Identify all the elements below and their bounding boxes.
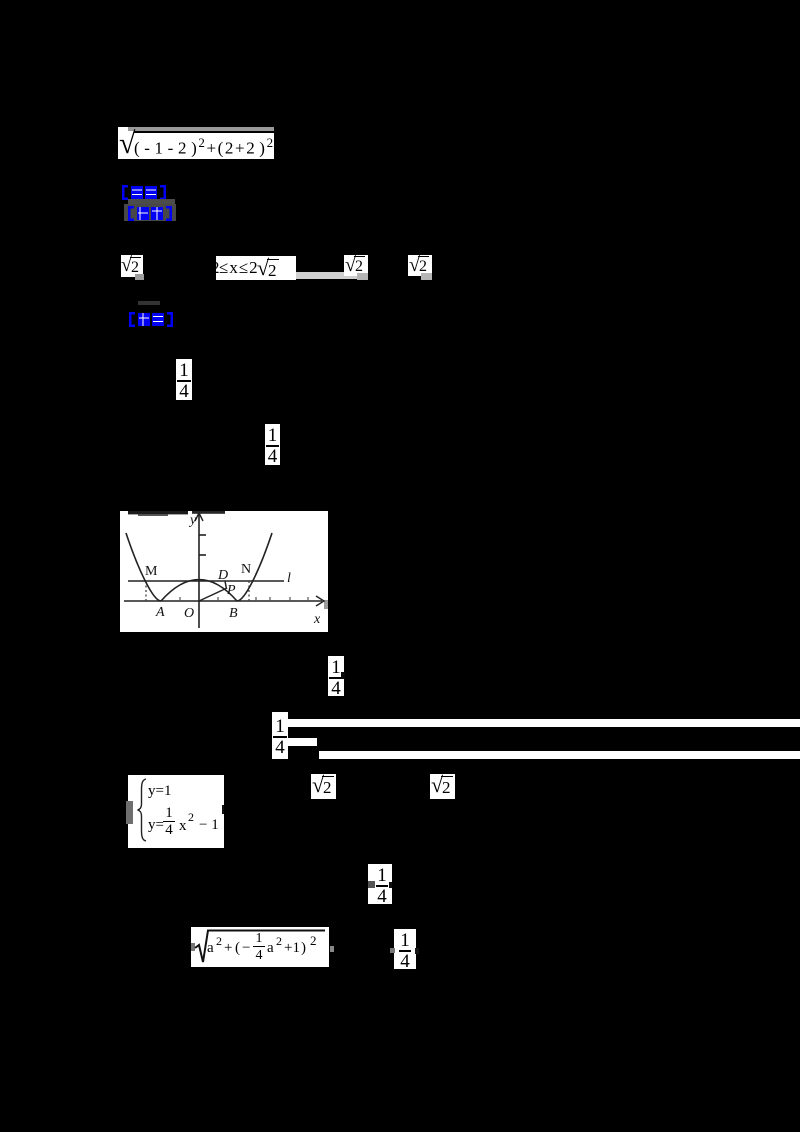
sqrt2 a (121, 255, 143, 277)
svg-text:N: N (241, 562, 251, 577)
fraction F (394, 929, 416, 969)
sqrt2 c (408, 255, 432, 276)
svg-text:y: y (188, 513, 197, 528)
svg-text:O: O (184, 606, 194, 621)
grey shadow under label1 (128, 199, 175, 205)
svg-text:P: P (226, 583, 236, 598)
sqrt2 b (344, 255, 368, 276)
segment O-P (199, 588, 227, 601)
x axis (124, 513, 324, 628)
svg-text:M: M (145, 564, 158, 579)
faint smudge above label3 (138, 301, 160, 305)
y axis (198, 514, 200, 628)
grey bg label2 (124, 204, 176, 221)
fraction A (176, 359, 192, 400)
segment D-P (225, 581, 227, 589)
inequality box (216, 256, 296, 280)
y ticks (199, 534, 206, 536)
system of equations (128, 775, 224, 848)
grey nub right (324, 600, 328, 609)
dotted N (248, 581, 250, 601)
sqrt2 e (430, 774, 455, 799)
dotted M (145, 581, 147, 601)
smudge top (128, 511, 188, 514)
line l (128, 580, 284, 582)
svg-text:l: l (287, 571, 291, 586)
svg-text:A: A (155, 605, 165, 620)
blue label 3 (128, 312, 174, 327)
parabola left branch (126, 533, 161, 601)
x ticks (180, 597, 308, 601)
blue label 1 (121, 185, 167, 200)
radical 2 (191, 927, 329, 967)
labels (155, 513, 321, 627)
fraction B (265, 424, 280, 465)
formula sqrt((-1-2)^2+(2+2)^2) (118, 127, 274, 159)
grey mark left of system (126, 801, 133, 824)
sqrt2 d (311, 774, 336, 799)
grey strip after inequality (296, 272, 361, 279)
fraction D + strips (272, 712, 288, 759)
parabola right branch (237, 533, 272, 601)
graph (120, 511, 328, 632)
fraction C (328, 656, 344, 696)
blue label 2 (127, 206, 173, 221)
hump (161, 580, 237, 602)
svg-text:B: B (229, 606, 238, 621)
svg-text:x: x (313, 612, 321, 627)
fraction E with = (368, 864, 392, 904)
svg-text:D: D (217, 568, 228, 583)
